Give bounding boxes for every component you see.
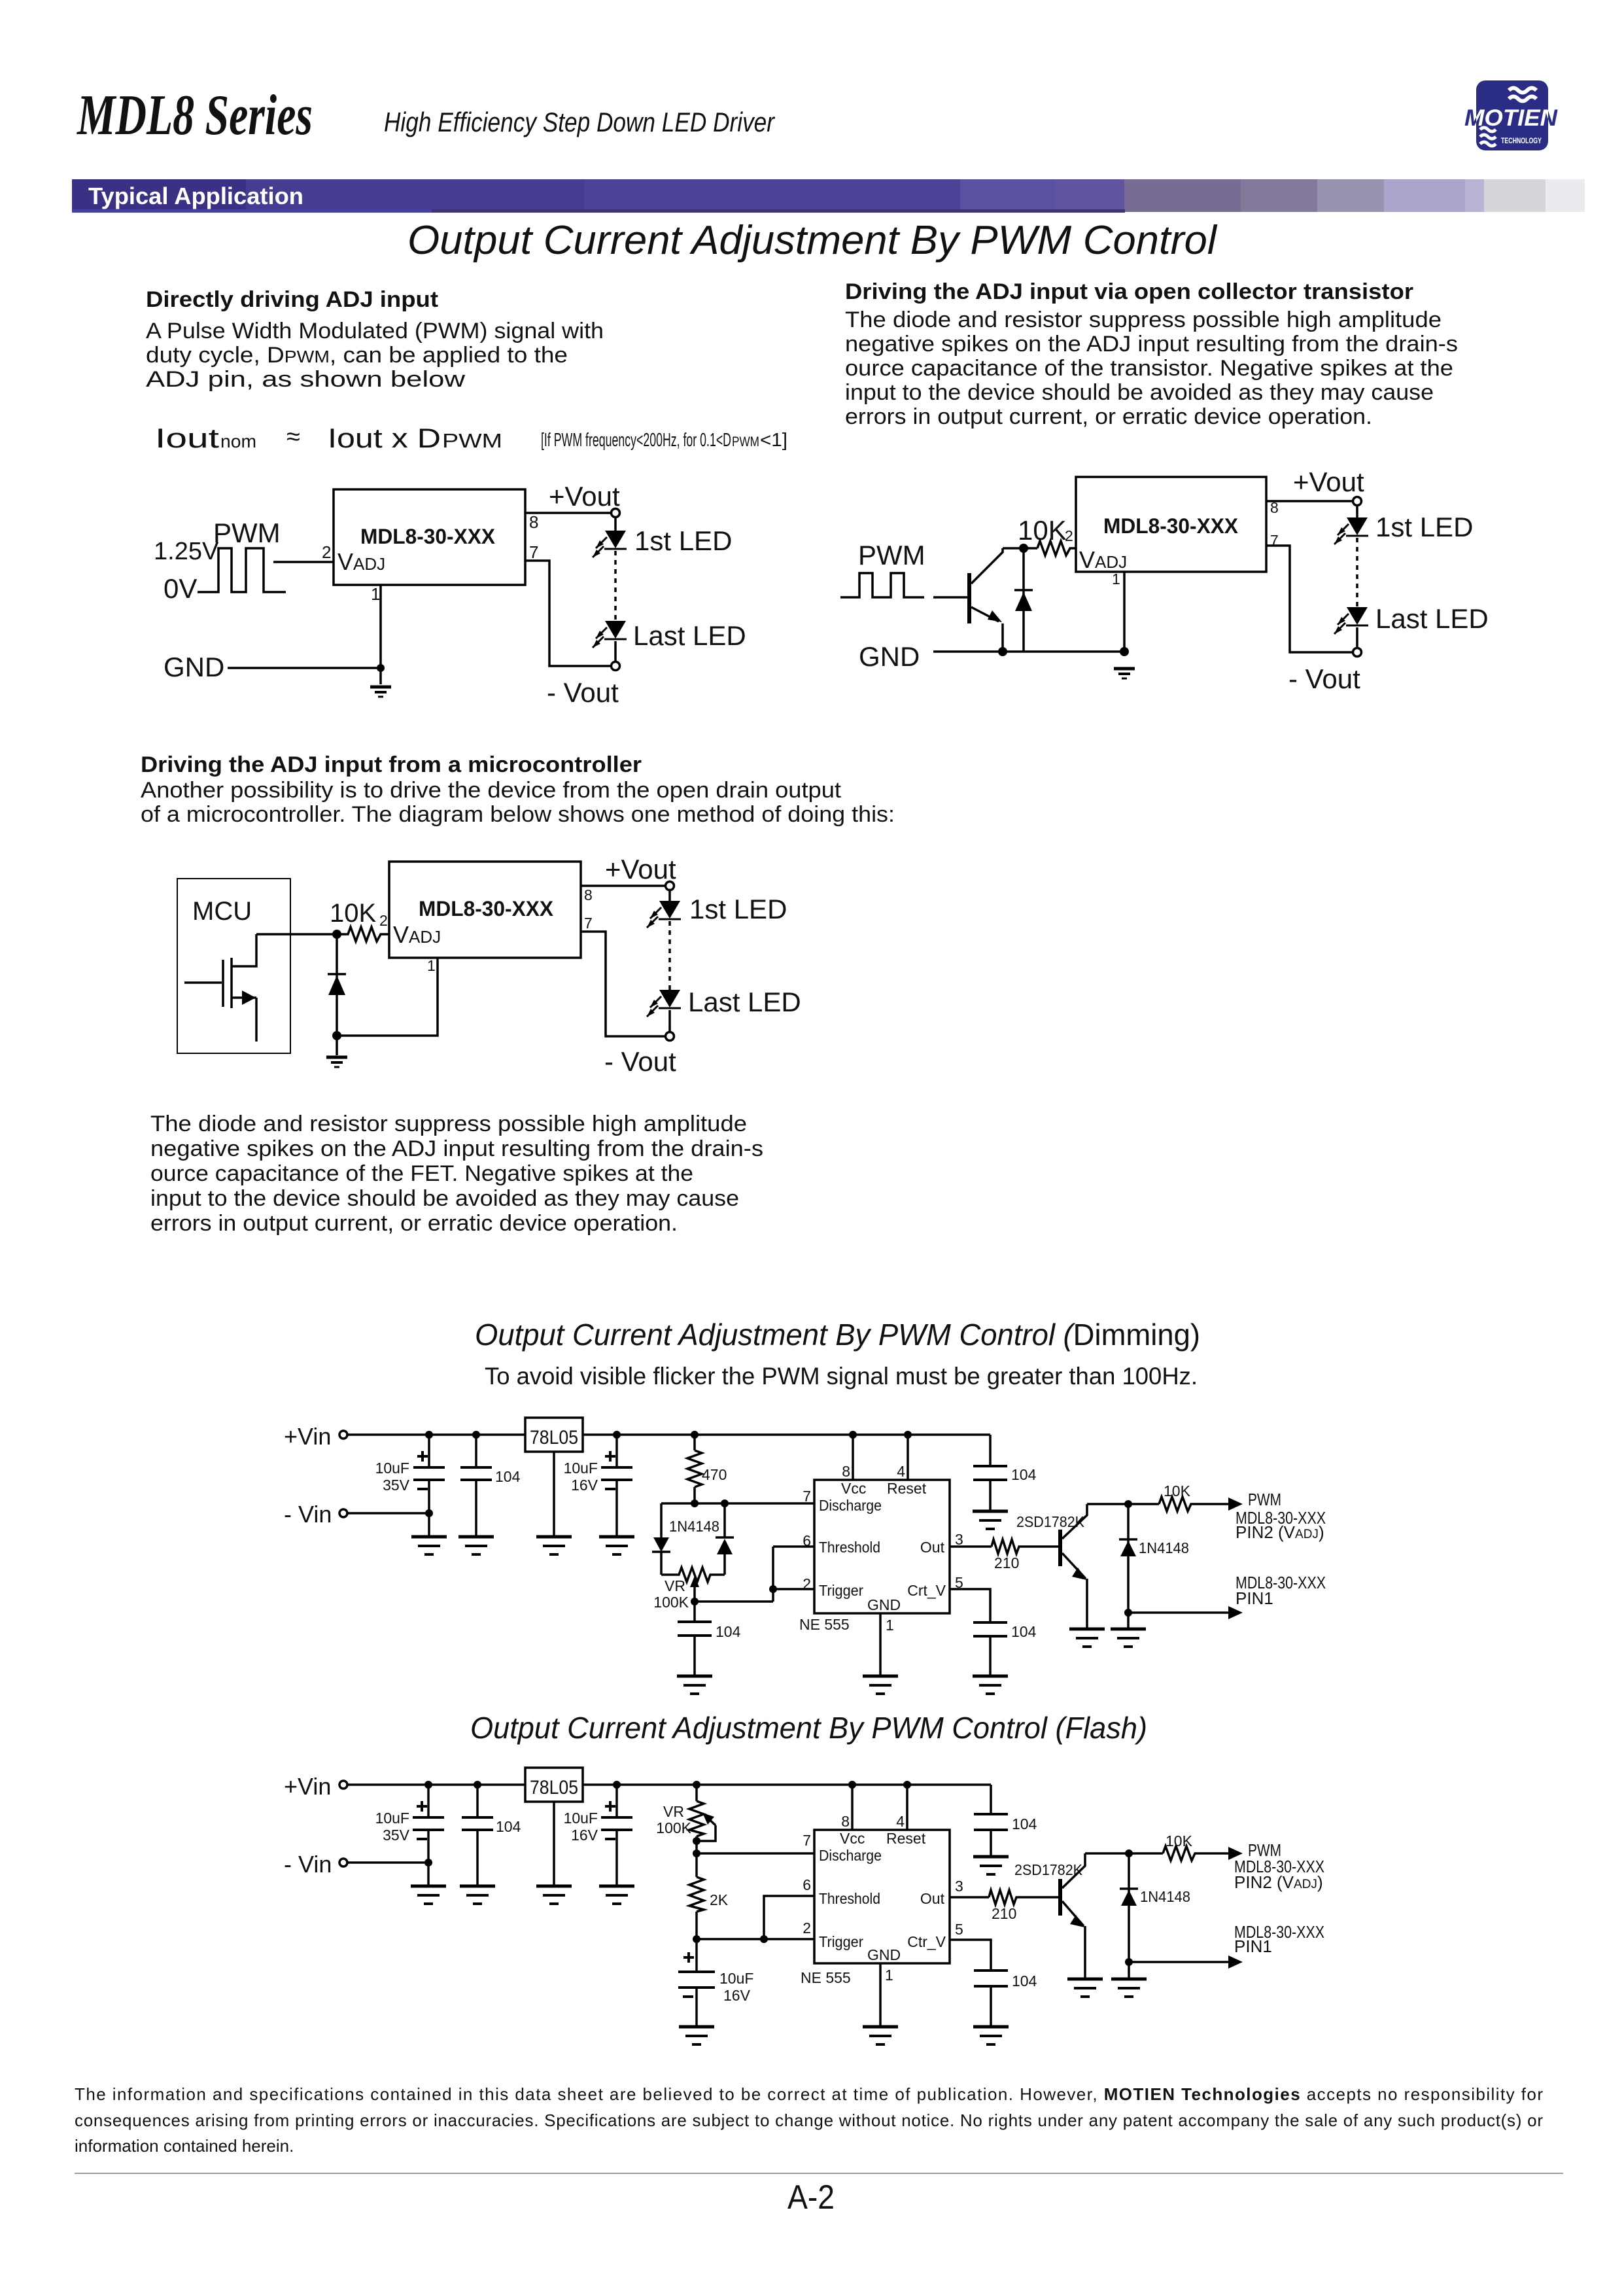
svg-text:PIN1: PIN1 (1235, 1588, 1273, 1608)
ground Q3 emitter (1067, 1979, 1103, 1997)
svg-text:10K: 10K (1166, 1832, 1193, 1849)
svg-text:<1]: <1] (760, 430, 787, 451)
svg-text:Trigger: Trigger (819, 1582, 863, 1599)
svg-text:consequences arising from prin: consequences arising from printing error… (75, 2111, 1543, 2130)
svg-text:input to the device should be: input to the device should be avoided as… (150, 1186, 739, 1211)
junction C3 (613, 1781, 621, 1789)
svg-text:Vcc: Vcc (840, 1830, 865, 1847)
svg-text:GND: GND (164, 652, 224, 682)
svg-text:3: 3 (955, 1531, 963, 1548)
svg-text:7: 7 (803, 1488, 811, 1505)
wire D4 gnd (1128, 1962, 1130, 1978)
svg-text:104: 104 (1012, 1815, 1037, 1832)
wire 78L05 gnd pin (553, 1802, 555, 1885)
wire to base (1018, 1896, 1058, 1899)
junction C1 (424, 1781, 432, 1789)
resistor R4 10K (1159, 1497, 1193, 1511)
svg-text:Vcc: Vcc (841, 1480, 866, 1497)
svg-text:+Vin: +Vin (284, 1773, 331, 1800)
wire last LED to -Vout (614, 641, 617, 662)
ground C2 (458, 1537, 494, 1554)
PWM waveform (198, 548, 286, 592)
junction D3 (1124, 1500, 1132, 1508)
LED D2 1st (1334, 517, 1368, 544)
wire to PWM arrow (1193, 1503, 1228, 1505)
svg-text:8: 8 (529, 512, 538, 532)
junction pin8 (848, 1781, 856, 1789)
svg-text:100K: 100K (656, 1819, 691, 1836)
svg-text:Reset: Reset (886, 1830, 926, 1847)
ground 78L05 (536, 1886, 572, 1904)
svg-text:4: 4 (896, 1813, 905, 1830)
ground C8 (973, 2027, 1009, 2044)
svg-text:MDL8-30-XXX: MDL8-30-XXX (1103, 514, 1239, 538)
svg-text:1: 1 (885, 1967, 893, 1984)
svg-text:78L05: 78L05 (530, 1427, 578, 1448)
svg-text:VADJ: VADJ (393, 921, 441, 948)
svg-text:Output Current Adjustment By P: Output Current Adjustment By PWM Control (407, 218, 1218, 263)
IC U5 NE555 (814, 1830, 950, 1963)
svg-text:Last LED: Last LED (633, 620, 746, 651)
junction D3 bottom (1124, 1609, 1132, 1617)
svg-text:104: 104 (1012, 1972, 1037, 1989)
terminal -Vout (666, 1032, 674, 1041)
svg-text:NE 555: NE 555 (799, 1616, 850, 1633)
svg-text:1N4148: 1N4148 (1139, 1539, 1189, 1556)
svg-text:The diode and resistor suppres: The diode and resistor suppress possible… (150, 1112, 747, 1136)
diode D2 1N4148 (716, 1503, 734, 1575)
resistor R2 470 (687, 1435, 702, 1503)
svg-text:Output Current Adjustment By P: Output Current Adjustment By PWM Control… (470, 1711, 1147, 1745)
IC U3 NE555 (814, 1480, 950, 1613)
svg-text:Last LED: Last LED (1375, 603, 1489, 634)
paragraph below circuit3 (150, 1112, 763, 1236)
svg-text:High Efficiency Step Down LED: High Efficiency Step Down LED Driver (384, 107, 776, 137)
svg-text:TECHNOLOGY: TECHNOLOGY (1501, 136, 1542, 145)
wire pin1 (879, 1613, 882, 1675)
junction VR hook (693, 1837, 700, 1845)
terminal +Vout (612, 509, 620, 517)
ground Q2 emitter (1069, 1629, 1105, 1647)
wire ctr_v (950, 1940, 991, 1971)
FET Q1 open drain (184, 934, 256, 1042)
diode D1 1N4148 (652, 1503, 670, 1575)
resistor R6 210 (989, 1890, 1018, 1904)
svg-text:The information and specifi: The information and specifications conta… (75, 2084, 1543, 2104)
wire +Vin rail (347, 1783, 525, 1786)
wire crt_v (950, 1589, 990, 1622)
svg-text:104: 104 (716, 1623, 741, 1640)
svg-text:GND: GND (867, 1946, 901, 1963)
wire VADJ input (273, 561, 334, 563)
transistor Q3 2SD1782K (1058, 1853, 1085, 1978)
capacitor C7 10uF 16V (678, 1939, 715, 2025)
svg-text:nom: nom (220, 431, 256, 451)
svg-text:Threshold: Threshold (819, 1539, 880, 1556)
svg-text:Ctr_V: Ctr_V (907, 1933, 946, 1950)
potentiometer VR 100K (661, 1568, 725, 1602)
svg-text:1st LED: 1st LED (689, 894, 787, 924)
wire pin7 return (525, 561, 612, 666)
junction discharge (693, 1849, 700, 1857)
wire to 1st LED (614, 517, 617, 531)
wire GND rail (228, 667, 381, 669)
svg-text:Directly driving ADJ input: Directly driving ADJ input (146, 287, 438, 312)
wire 78L05 gnd pin (553, 1452, 555, 1535)
wire last LED to -Vout (1356, 627, 1358, 648)
junction -Vin C1 (424, 1859, 432, 1866)
footer rule (75, 2173, 1563, 2174)
svg-text:- Vin: - Vin (284, 1851, 332, 1878)
terminal -Vout (612, 662, 620, 671)
capacitor C2 104 (462, 1785, 493, 1885)
paragraph mid (141, 778, 895, 827)
svg-text:2SD1782K: 2SD1782K (1014, 1861, 1083, 1878)
ground C3 (599, 1537, 634, 1554)
svg-text:PWM: PWM (732, 434, 759, 449)
svg-text:2: 2 (803, 1575, 811, 1592)
junction C2 (474, 1781, 481, 1789)
svg-text:errors in output current, or e: errors in output current, or erratic dev… (150, 1211, 678, 1236)
junction gnd (377, 664, 385, 672)
svg-text:+Vout: +Vout (549, 481, 620, 512)
resistor R3 210 (992, 1539, 1020, 1554)
svg-text:8: 8 (842, 1463, 850, 1480)
ground C4 (677, 1676, 712, 1694)
svg-text:Driving the ADJ input from a m: Driving the ADJ input from a microcontro… (141, 752, 642, 777)
svg-text:Driving the ADJ input via open: Driving the ADJ input via open collector… (845, 279, 1413, 304)
svg-text:- Vout: - Vout (547, 677, 619, 708)
svg-text:2: 2 (322, 542, 331, 562)
junction D4 (1125, 1849, 1133, 1857)
capacitor C6 104 top (973, 1435, 1007, 1510)
svg-text:+Vin: +Vin (284, 1423, 331, 1450)
svg-text:PWM: PWM (858, 540, 925, 570)
arrow PWM out (1228, 1498, 1243, 1511)
wire base input (933, 596, 967, 599)
wire wiper to trigger (695, 1600, 773, 1603)
svg-text:210: 210 (992, 1905, 1016, 1922)
wire collector to node (1003, 547, 1037, 550)
svg-text:16V: 16V (571, 1477, 598, 1494)
ground C3 (599, 1886, 634, 1904)
svg-text:A-2: A-2 (787, 2179, 835, 2216)
svg-text:104: 104 (1011, 1623, 1037, 1640)
svg-text:10uF: 10uF (719, 1970, 753, 1987)
svg-text:16V: 16V (723, 1987, 751, 2004)
svg-text:104: 104 (496, 1818, 521, 1835)
junction emitter gnd (998, 647, 1007, 656)
wire pin4 (907, 1435, 909, 1480)
svg-text:100K: 100K (653, 1594, 689, 1611)
svg-text:- Vout: - Vout (604, 1046, 676, 1077)
svg-text:1st LED: 1st LED (634, 525, 732, 556)
resistor R1 10K (1037, 541, 1076, 555)
svg-text:35V: 35V (383, 1827, 410, 1844)
svg-text:2K: 2K (710, 1891, 729, 1908)
svg-text:negative spikes on the ADJ inp: negative spikes on the ADJ input resulti… (845, 332, 1458, 357)
wire trigger (697, 1938, 814, 1940)
MCU box (177, 879, 290, 1053)
svg-text:errors in output current, or e: errors in output current, or erratic dev… (845, 404, 1372, 429)
diode D1 clamp (1014, 548, 1033, 652)
wire pin8 (851, 1785, 854, 1830)
arrow PIN1 out (1228, 1606, 1243, 1619)
svg-text:Output Current Adjustment By P: Output Current Adjustment By PWM Control… (475, 1318, 1200, 1352)
svg-text:Another possibility is to driv: Another possibility is to drive the devi… (141, 778, 842, 803)
capacitor C2 104 (460, 1435, 492, 1535)
svg-text:of a microcontroller. The diag: of a microcontroller. The diagram below … (141, 802, 895, 827)
junction trigger (769, 1585, 777, 1593)
arrow PWM out (1228, 1847, 1243, 1860)
svg-text:ADJ pin, as shown below: ADJ pin, as shown below (146, 367, 466, 392)
junction wiper (691, 1598, 699, 1605)
svg-text:1st LED: 1st LED (1375, 512, 1473, 542)
svg-text:Out: Out (920, 1539, 945, 1556)
svg-text:1N4148: 1N4148 (669, 1518, 719, 1535)
wire pin8 (852, 1435, 854, 1480)
wire pin1 to gnd (1123, 572, 1126, 652)
svg-text:1N4148: 1N4148 (1140, 1888, 1190, 1905)
logo MOTIEN (1464, 80, 1558, 150)
svg-text:1.25V: 1.25V (154, 538, 219, 565)
svg-text:MDL8 Series: MDL8 Series (77, 84, 313, 147)
resistor R5 2K (689, 1877, 704, 1939)
banner typical application (72, 179, 1585, 213)
wire GND rail (933, 650, 1124, 653)
junction node (1019, 544, 1028, 553)
IC U1 MDL8-30-XXX (389, 862, 581, 958)
junction C3 (613, 1431, 621, 1439)
terminal +Vin (339, 1781, 347, 1789)
wire pin1 to gnd (379, 585, 382, 684)
ground pin1 (863, 1676, 898, 1694)
svg-text:Iout: Iout (155, 423, 219, 453)
svg-text:Typical Application: Typical Application (88, 183, 303, 209)
svg-text:To avoid visible flicker the P: To avoid visible flicker the PWM signal … (485, 1363, 1198, 1390)
svg-text:2: 2 (803, 1919, 811, 1936)
junction node ADJ (332, 930, 341, 939)
wire collector node (1085, 1852, 1163, 1855)
svg-text:470: 470 (702, 1466, 727, 1483)
svg-text:ource capacitance of the FET.: ource capacitance of the FET. Negative s… (150, 1161, 693, 1186)
svg-text:Discharge: Discharge (819, 1847, 882, 1864)
svg-text:VR: VR (665, 1577, 685, 1594)
svg-text:input to the device should be: input to the device should be avoided as… (845, 380, 1434, 405)
formula (155, 423, 787, 453)
resistor R7 10K (1163, 1846, 1197, 1861)
junction trigger node (693, 1935, 700, 1943)
wire to PIN1 arrow (1128, 1611, 1228, 1614)
svg-text:PWM: PWM (442, 429, 502, 452)
terminal -Vin (339, 1859, 347, 1866)
capacitor C3 10uF 16V (601, 1785, 632, 1885)
wire 5V rail (583, 1783, 991, 1786)
svg-text:0V: 0V (164, 573, 197, 604)
svg-text:+Vout: +Vout (1293, 466, 1364, 497)
ground C7 (679, 2027, 714, 2044)
junction pin1 gnd (1120, 647, 1129, 656)
svg-text:PIN1: PIN1 (1234, 1936, 1272, 1956)
junction D2 top (721, 1499, 729, 1507)
junction pin4 (903, 1781, 911, 1789)
ground C2 (460, 1886, 495, 1904)
svg-text:35V: 35V (383, 1477, 410, 1494)
svg-text:Discharge: Discharge (819, 1497, 882, 1514)
svg-text:Trigger: Trigger (819, 1933, 863, 1950)
ground (326, 1057, 347, 1067)
svg-text:10uF: 10uF (375, 1460, 409, 1477)
arrow PIN1 out (1228, 1955, 1243, 1969)
svg-text:Out: Out (920, 1890, 945, 1907)
svg-text:+Vout: +Vout (605, 854, 676, 885)
wire pin8 to +Vout (581, 885, 666, 887)
wire pin7 return (1266, 546, 1353, 652)
diode D1 clamp (328, 934, 346, 1036)
wire pin8 to +Vout (1266, 500, 1353, 502)
svg-text:78L05: 78L05 (530, 1777, 578, 1798)
svg-text:Threshold: Threshold (819, 1890, 880, 1907)
svg-text:8: 8 (584, 886, 593, 903)
wire out (950, 1896, 989, 1899)
svg-text:≈: ≈ (286, 423, 300, 451)
svg-text:PWM: PWM (1248, 1490, 1281, 1509)
transistor Q1 NPN (967, 548, 1003, 652)
terminal +Vout (1353, 497, 1362, 506)
capacitor C1 10uF 35V (413, 1785, 444, 1885)
svg-text:- Vout: - Vout (1288, 663, 1360, 694)
IC U1 MDL8-30-XXX (334, 489, 525, 585)
junction gnd node (332, 1031, 341, 1040)
regulator U4 78L05 (525, 1768, 583, 1802)
capacitor C1 10uF 35V (413, 1435, 445, 1535)
svg-text:3: 3 (955, 1878, 963, 1895)
junction -Vin C1 (425, 1509, 433, 1517)
wire out (950, 1545, 992, 1548)
PWM waveform (840, 573, 924, 597)
svg-text:1: 1 (371, 584, 380, 604)
svg-text:10uF: 10uF (375, 1810, 409, 1827)
capacitor C3 10uF 16V (601, 1435, 632, 1535)
ground C1 (411, 1537, 447, 1554)
junction R470 (691, 1431, 699, 1439)
wire to base (1020, 1545, 1058, 1548)
svg-text:10K: 10K (330, 899, 376, 928)
terminal +Vout (666, 882, 674, 890)
junction C2 (472, 1431, 480, 1439)
IC U1 MDL8-30-XXX (1076, 477, 1266, 572)
ground (1114, 669, 1135, 678)
svg-text:6: 6 (803, 1532, 811, 1549)
ground pin1 (863, 2027, 898, 2044)
junction D4 bottom (1125, 1958, 1133, 1966)
ground 78L05 (536, 1537, 572, 1554)
wire discharge net (661, 1502, 814, 1505)
svg-text:MDL8-30-XXX: MDL8-30-XXX (419, 897, 554, 920)
ground D3 (1111, 1629, 1146, 1647)
wire 5V rail (583, 1433, 990, 1436)
junction 470 bottom (691, 1499, 699, 1507)
svg-text:PWM: PWM (213, 517, 281, 548)
svg-text:8: 8 (841, 1813, 850, 1830)
LED D1 1st (593, 531, 627, 557)
svg-text:210: 210 (994, 1554, 1019, 1571)
svg-text:Last LED: Last LED (688, 987, 801, 1017)
wire node to pin1 (337, 958, 438, 1036)
wire -Vin (347, 1861, 428, 1864)
capacitor C9 104 top (974, 1785, 1008, 1855)
svg-text:7: 7 (803, 1832, 811, 1849)
terminal -Vout (1353, 648, 1362, 657)
junction VR (693, 1781, 700, 1789)
junction C1 (425, 1431, 433, 1439)
svg-text:2: 2 (379, 912, 388, 929)
svg-text:The diode and resistor suppres: The diode and resistor suppress possible… (845, 307, 1442, 332)
svg-text:7: 7 (529, 542, 538, 562)
svg-text:Crt_V: Crt_V (907, 1582, 946, 1599)
dashed LED string (614, 551, 617, 621)
svg-text:VADJ: VADJ (1079, 546, 1127, 573)
capacitor C8 104 (974, 1971, 1008, 2025)
svg-text:MCU: MCU (192, 897, 252, 926)
svg-text:ource capacitance of the trans: ource capacitance of the transistor. Neg… (845, 356, 1453, 381)
svg-text:A Pulse Width Modulated (PWM): A Pulse Width Modulated (PWM) signal wit… (146, 319, 604, 343)
diode D3 1N4148 (1119, 1504, 1137, 1613)
wire to PWM arrow (1197, 1852, 1228, 1855)
wire +Vin rail (347, 1433, 525, 1436)
svg-text:duty cycle, DPWM, can be appli: duty cycle, DPWM, can be applied to the (146, 343, 568, 368)
svg-text:VR: VR (663, 1803, 684, 1820)
wire to ground (336, 1036, 338, 1055)
LED D3 last (1334, 607, 1368, 634)
ground C1 (411, 1886, 446, 1904)
svg-text:Iout x D: Iout x D (328, 423, 441, 453)
svg-text:MOTIEN: MOTIEN (1464, 105, 1558, 131)
svg-text:104: 104 (495, 1468, 521, 1485)
svg-text:10K: 10K (1018, 515, 1067, 546)
wire to PIN1 arrow (1129, 1961, 1228, 1963)
svg-text:10K: 10K (1164, 1482, 1191, 1499)
svg-text:10uF: 10uF (564, 1460, 598, 1477)
svg-text:7: 7 (584, 915, 593, 932)
ground C6 (973, 1511, 1008, 1529)
svg-text:negative spikes on the ADJ inp: negative spikes on the ADJ input resulti… (150, 1136, 763, 1161)
wire threshold link (772, 1547, 774, 1602)
svg-text:2: 2 (1065, 527, 1073, 544)
capacitor C5 104 (973, 1622, 1007, 1675)
svg-text:Reset: Reset (887, 1480, 927, 1497)
svg-text:104: 104 (1011, 1466, 1037, 1483)
svg-text:GND: GND (867, 1596, 901, 1613)
svg-text:1: 1 (1112, 570, 1120, 587)
dashed LED string (1356, 538, 1358, 607)
wire drain to node (256, 933, 345, 936)
wire discharge (697, 1852, 814, 1855)
svg-text:1: 1 (427, 957, 436, 974)
capacitor C4 104 (678, 1602, 712, 1675)
diode D4 1N4148 (1120, 1853, 1138, 1962)
wire threshold link (764, 1896, 814, 1939)
paragraph right (845, 307, 1458, 429)
svg-text:information contained herein.: information contained herein. (75, 2136, 294, 2156)
resistor R1 10K (345, 927, 389, 941)
svg-text:NE 555: NE 555 (801, 1969, 851, 1986)
LED D2 last (593, 621, 627, 648)
wire pin1 (879, 1963, 882, 2025)
wire to 1st LED (668, 890, 671, 901)
ground D4 (1111, 1979, 1147, 1997)
terminal -Vin (339, 1509, 347, 1517)
